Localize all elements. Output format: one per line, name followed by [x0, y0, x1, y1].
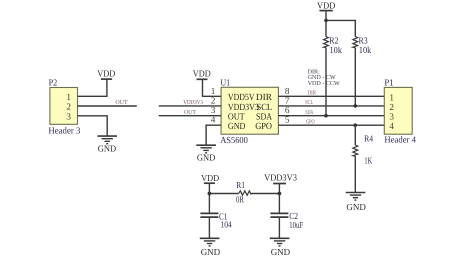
- svg-text:GND: GND: [228, 122, 246, 132]
- wire VDD to R2: [325, 20, 327, 36]
- wire DIR (U1 pin8 to P1 pin1): [278, 95, 384, 97]
- svg-text:10uF: 10uF: [289, 220, 303, 230]
- svg-text:VDD3V3: VDD3V3: [183, 99, 203, 106]
- svg-text:DIR: DIR: [256, 93, 273, 103]
- svg-text:DIR: DIR: [308, 90, 317, 96]
- connector P1 body: [384, 77, 416, 144]
- resistor R3: [353, 36, 372, 56]
- power port VDD (P2): [97, 68, 115, 79]
- svg-text:P2: P2: [49, 77, 58, 87]
- svg-text:VDD: VDD: [201, 173, 219, 183]
- svg-text:6: 6: [285, 105, 290, 115]
- ground symbol (R4): [346, 193, 367, 213]
- ground symbol (C2): [270, 238, 291, 257]
- svg-text:3: 3: [66, 111, 71, 121]
- junction VDD3V3/C2/R1: [278, 192, 282, 196]
- svg-text:SDA: SDA: [256, 113, 272, 123]
- capacitor C2: [270, 211, 303, 230]
- svg-text:VDD3V3: VDD3V3: [228, 103, 259, 113]
- svg-text:VDD: VDD: [97, 68, 115, 78]
- junction R3/SCL: [354, 104, 358, 108]
- wire VDD stem to split: [325, 11, 327, 21]
- wire R1 right to VDD3V3 node: [251, 193, 280, 195]
- svg-text:10k: 10k: [330, 45, 343, 55]
- wire VDD to R1 node: [208, 183, 210, 193]
- svg-text:U1: U1: [220, 77, 230, 87]
- svg-text:OUT: OUT: [115, 99, 128, 106]
- svg-text:VDD: VDD: [317, 0, 336, 10]
- ground symbol (P2): [97, 136, 117, 153]
- svg-text:Header 3: Header 3: [48, 125, 80, 135]
- svg-text:VDD3V3: VDD3V3: [264, 173, 297, 183]
- svg-text:GPO: GPO: [306, 118, 315, 125]
- op chip U1 body: [220, 77, 278, 145]
- svg-text:8: 8: [285, 86, 290, 96]
- resistor R4: [353, 134, 373, 166]
- svg-text:R4: R4: [364, 134, 373, 144]
- svg-text:GND: GND: [271, 247, 291, 257]
- svg-text:OUT: OUT: [228, 113, 245, 123]
- wire GPO to R4: [354, 125, 356, 145]
- svg-text:1K: 1K: [364, 156, 372, 166]
- ground symbol (U1): [196, 145, 216, 162]
- svg-text:R3: R3: [359, 36, 369, 46]
- wire VDD3V3 stem: [278, 184, 280, 194]
- junction VDD/C1/R1: [208, 192, 212, 196]
- wire split to R3 column: [326, 20, 355, 36]
- wire P2 pin1 to VDD: [78, 79, 107, 96]
- wire P2 pin2 OUT: [78, 105, 137, 107]
- junction GPO/R4: [354, 123, 358, 127]
- power port VDD (filter): [201, 173, 219, 183]
- wire R4 to GND: [354, 156, 356, 192]
- wire node to C2: [278, 194, 280, 214]
- svg-text:R1: R1: [236, 180, 245, 190]
- wire C1 to GND: [208, 217, 210, 238]
- note text DIR legend: [308, 69, 340, 87]
- svg-text:104: 104: [221, 219, 233, 229]
- junction R2/SDA: [324, 114, 328, 118]
- wire GPO (U1 pin5 to P1 pin4): [278, 124, 384, 126]
- svg-text:4: 4: [389, 121, 394, 131]
- connector P2 body: [48, 77, 80, 135]
- svg-text:2: 2: [66, 102, 71, 112]
- wire node to C1: [208, 194, 210, 214]
- ground symbol (C1): [200, 238, 221, 257]
- wire R2 to SDA: [325, 48, 327, 116]
- svg-text:1: 1: [389, 92, 394, 102]
- svg-text:1: 1: [66, 92, 71, 102]
- svg-text:VDD5V: VDD5V: [228, 93, 255, 103]
- svg-text:1: 1: [211, 86, 216, 96]
- svg-text:GPO: GPO: [255, 122, 272, 132]
- svg-text:OUT: OUT: [184, 109, 196, 116]
- wire U1 pin4 to GND: [206, 125, 221, 145]
- svg-text:SDA: SDA: [305, 109, 313, 116]
- svg-text:SCL: SCL: [305, 99, 313, 106]
- resistor R2: [324, 36, 343, 56]
- svg-text:GND: GND: [98, 143, 117, 153]
- svg-text:GND: GND: [197, 152, 216, 162]
- svg-text:Header 4: Header 4: [384, 135, 416, 145]
- wire SDA (U1 pin6 to P1 pin3): [278, 115, 384, 117]
- svg-text:0R: 0R: [236, 195, 245, 205]
- svg-text:10k: 10k: [359, 45, 372, 55]
- svg-text:P1: P1: [384, 77, 394, 87]
- wire R3 to SCL: [354, 48, 356, 106]
- svg-text:R2: R2: [329, 36, 339, 46]
- wire SCL (U1 pin7 to P1 pin2): [278, 105, 384, 107]
- svg-text:SCL: SCL: [257, 103, 273, 113]
- svg-text:VDD: VDD: [193, 69, 211, 79]
- power port VDD (pull-ups): [317, 0, 336, 10]
- svg-text:GND: GND: [346, 202, 366, 212]
- resistor R1: [236, 180, 251, 205]
- wire C2 to GND: [278, 217, 280, 238]
- wire U1 pin1 to VDD: [203, 79, 222, 96]
- wire P2 pin3 to GND: [78, 116, 108, 136]
- wire node to R1 left: [209, 193, 238, 195]
- svg-text:AS5600: AS5600: [220, 135, 248, 145]
- capacitor C1: [200, 211, 232, 229]
- svg-text:2: 2: [389, 102, 394, 112]
- power port VDD3V3: [264, 173, 297, 184]
- svg-text:VDD - CCW: VDD - CCW: [308, 80, 340, 87]
- wire U1 pin2 VDD3V3: [159, 105, 221, 107]
- svg-text:3: 3: [211, 105, 216, 115]
- power port VDD (U1): [193, 69, 211, 80]
- wire U1 pin3 OUT: [159, 115, 221, 117]
- svg-text:3: 3: [389, 112, 394, 122]
- junction at VDD split: [324, 19, 328, 23]
- svg-text:GND: GND: [201, 247, 221, 257]
